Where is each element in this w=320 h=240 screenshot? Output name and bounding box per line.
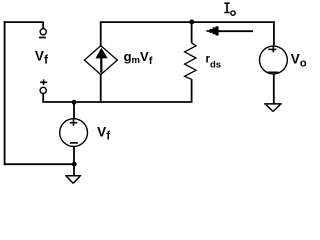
current arrow Io (pointing left) — [206, 26, 253, 35]
terminal lower (plus) — [40, 87, 46, 93]
wire from source Vf to ground node — [73, 146, 75, 164]
terminal upper (minus) — [40, 29, 46, 35]
wire left vertical — [4, 21, 6, 165]
node junction dot on middle bus — [72, 100, 77, 105]
wire from dependent source to middle bus — [100, 74, 102, 102]
node junction dot bottom — [72, 162, 77, 167]
wire from node down to source Vf — [73, 102, 75, 119]
ground symbol right — [264, 104, 282, 112]
wire from top bus down to dependent source — [100, 22, 102, 46]
wire from source Vo to ground — [273, 74, 275, 104]
plus sign of port — [40, 80, 47, 86]
voltage source Vo — [260, 46, 288, 74]
dependent current source gmVf (diamond) — [84, 46, 117, 75]
wire middle bus — [42, 101, 192, 103]
wire top-left horizontal — [4, 21, 44, 23]
wire stub from lower terminal to middle bus — [42, 94, 44, 103]
wire ground stub — [73, 164, 75, 176]
ground symbol left — [65, 176, 81, 184]
node junction dot on top bus — [189, 20, 194, 25]
minus sign of port — [39, 37, 46, 39]
voltage source Vf — [60, 119, 88, 147]
wire from resistor to middle bus — [191, 79, 193, 102]
wire stub to upper terminal — [42, 22, 44, 29]
wire bottom-left horizontal — [4, 163, 74, 165]
wire top bus — [100, 21, 275, 23]
wire from top bus down to source Vo — [273, 21, 275, 46]
resistor rds zigzag — [185, 43, 196, 80]
wire from top node to resistor — [191, 22, 193, 43]
label Io — [224, 3, 235, 15]
